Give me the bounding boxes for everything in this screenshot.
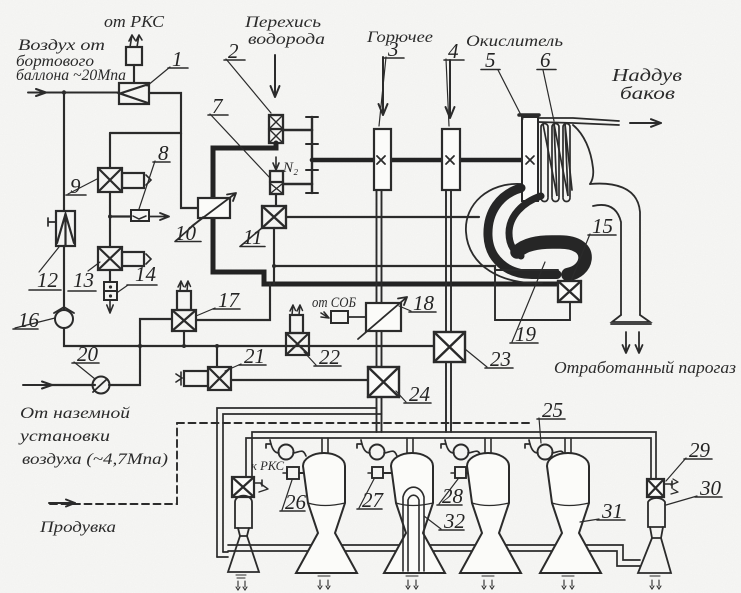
- pilot arrows above valve 1: [129, 35, 142, 47]
- valve 13 (solenoid with cylinder): [98, 247, 151, 270]
- svg-text:баков: баков: [620, 83, 675, 103]
- exhaust arrows: [623, 332, 630, 353]
- svg-text:5: 5: [485, 48, 496, 72]
- tank pressurization arrow: [630, 119, 661, 127]
- svg-text:13: 13: [73, 268, 94, 292]
- check yoke E2: [357, 440, 397, 460]
- svg-text:Отработанный парогаз: Отработанный парогаз: [554, 358, 736, 377]
- wire down from junction to regulator 12: [63, 93, 65, 212]
- vernier right engine 30: [638, 498, 671, 573]
- node junction at x64: [62, 90, 66, 94]
- tick arrow left of regulator 12: [48, 218, 56, 226]
- svg-text:Горючее: Горючее: [366, 29, 433, 46]
- check yoke E4 (valve 25): [525, 440, 565, 460]
- big engine 4: [540, 453, 601, 573]
- wire to restrictor 8: [110, 215, 131, 217]
- valve 2 (two-cell): [269, 115, 283, 143]
- wire valve17 right up to thick pipe: [196, 284, 270, 320]
- inlet arrow oxidizer: [446, 60, 455, 118]
- oxid pipe down from valve 4: [446, 190, 451, 332]
- wire valve11 down: [273, 228, 275, 284]
- fuel pipe 18 to 24: [377, 331, 382, 367]
- SOB sensor line: [321, 311, 366, 323]
- valve 29 (X box with pilot): [647, 479, 678, 497]
- wire valve2 right to column: [283, 129, 312, 132]
- ground texts: [17, 405, 168, 468]
- pilot box of reducer 1: [126, 47, 142, 65]
- svg-text:баллона ~20Мпа: баллона ~20Мпа: [16, 67, 126, 84]
- inner chamber 32: [403, 487, 424, 571]
- valve 21 (with cylinder left): [176, 367, 231, 390]
- svg-text:14: 14: [135, 262, 157, 286]
- solenoid 27: [368, 467, 391, 478]
- wire inlet to check 20: [52, 384, 95, 386]
- wire reducer1 right, down to y133: [110, 93, 181, 133]
- check valve 20: [93, 377, 110, 394]
- valve 4: [442, 129, 460, 190]
- valve 9 (solenoid with cylinder): [98, 168, 151, 192]
- wire valve21 to valve24: [231, 379, 368, 381]
- text "Наддув баков": [611, 65, 682, 103]
- wire valve11 right to turbine: [286, 216, 479, 218]
- turbine housing outline: [466, 125, 593, 283]
- valve 14 (small two-cell): [104, 282, 117, 300]
- big engine 1: [296, 453, 357, 573]
- valve 11 (X box): [262, 206, 286, 228]
- svg-text:воздуха (~4,7Мпа): воздуха (~4,7Мпа): [22, 451, 168, 468]
- HX valve 5 (left box): [519, 115, 539, 201]
- dome feed pipes from manifold: [322, 438, 571, 455]
- wire valve13 to valve 14: [109, 270, 111, 282]
- node: [272, 264, 276, 268]
- valve 24 (X box): [368, 367, 399, 397]
- drain bus bottom: [228, 545, 640, 566]
- vernier left drain marks: [236, 575, 247, 590]
- node bus x140: [138, 344, 142, 348]
- reducer 1 (box with triangle): [119, 83, 149, 104]
- HX coil 6: [541, 124, 572, 202]
- svg-text:12: 12: [37, 268, 59, 292]
- valve 3: [374, 129, 391, 190]
- inlet arrow peroxide: [271, 55, 280, 97]
- wire valve7 to valve11: [275, 194, 277, 206]
- solenoid 26: [283, 467, 305, 479]
- big engine 3: [460, 453, 521, 573]
- text "Перекись водорода": [244, 14, 325, 48]
- svg-text:Перехись: Перехись: [244, 14, 321, 31]
- engine manifold bus: [246, 432, 656, 479]
- valve 17 (solenoid): [172, 281, 196, 331]
- fuel pipe down from valve 3: [377, 190, 382, 303]
- svg-text:6: 6: [540, 48, 551, 72]
- svg-text:Продувка: Продувка: [39, 519, 116, 536]
- wire valve9 to valve13: [109, 192, 111, 247]
- purge arrow: [49, 500, 75, 507]
- svg-text:водорода: водорода: [248, 31, 325, 48]
- valve 15 (X box): [558, 281, 581, 302]
- check valve 16: [54, 307, 74, 328]
- label leaders: [15, 57, 697, 529]
- solenoid 28: [451, 467, 474, 478]
- wire reg12 to check16: [63, 246, 65, 310]
- wire check16 down to bus: [64, 328, 434, 346]
- vent arrow right of restrictor 8: [149, 213, 169, 220]
- wire y266 to gas generator: [274, 266, 495, 270]
- fuel pipe 24 down to engine frame: [377, 397, 382, 432]
- wire check20 to bus: [109, 346, 140, 385]
- svg-text:Наддув: Наддув: [611, 65, 682, 85]
- N2 arrow above valve 7: [273, 157, 279, 170]
- check yoke E3: [441, 440, 481, 460]
- oxid pipe 23 down to manifold: [446, 362, 451, 432]
- valve 22 (solenoid on bus): [286, 305, 309, 355]
- purge dashed line: [50, 423, 530, 504]
- pipe column with unions: [306, 117, 318, 193]
- thick manifold to valves 3,4,HX: [312, 158, 522, 163]
- svg-text:N₂: N₂: [282, 160, 298, 176]
- big engine 2 with inner 32: [384, 453, 445, 573]
- svg-text:От наземной: От наземной: [20, 405, 130, 422]
- gas generator box 19: [495, 270, 570, 320]
- node at y216: [108, 215, 112, 219]
- inlet arrow air line: [28, 89, 119, 96]
- vent arrow under valve 14: [107, 300, 113, 313]
- check yoke E1: [266, 440, 306, 460]
- svg-text:к РКС: к РКС: [251, 458, 284, 473]
- thick pipe valve2 down-left-down (peroxide main): [213, 143, 558, 284]
- wire from y133 down to valve 9: [109, 133, 111, 168]
- turbine gas duct 19 (thick spiral pipe): [488, 188, 585, 281]
- label underlines: [13, 58, 722, 530]
- vernier left valve 26area (X valve): [232, 477, 268, 497]
- regulator 18 (box with diagonal arrow): [358, 297, 407, 339]
- exhaust elbow and pipe: [590, 184, 651, 324]
- valve 23 (X box): [434, 332, 465, 362]
- svg-text:от РКС: от РКС: [104, 12, 165, 31]
- wire x181 down to regulator 10: [181, 133, 198, 208]
- ground air inlet arrow: [23, 382, 52, 389]
- left frame pipe (from valve24 line down left side): [217, 408, 382, 557]
- svg-text:от СОБ: от СОБ: [312, 295, 356, 311]
- valve 7 (two-cell): [270, 171, 283, 194]
- pipe to tank pressurization: [538, 118, 619, 125]
- regulator 12 (box with triangle): [56, 211, 75, 246]
- svg-text:11: 11: [243, 225, 262, 249]
- vernier left engine body: [228, 496, 259, 572]
- text "Воздух от бортового баллона ~20МПа": [16, 37, 126, 84]
- wire valve7 right to column: [283, 183, 312, 186]
- svg-text:Воздух от: Воздух от: [18, 37, 105, 54]
- wire valve17 bottom to bus: [183, 331, 185, 346]
- restrictor 8: [131, 210, 149, 221]
- wire valve21 top to bus: [216, 346, 218, 367]
- wire pilot to reducer 1: [133, 65, 135, 83]
- regulator 10 (box with diagonal arrow): [192, 193, 236, 226]
- wire x140 up to valve17 line: [140, 319, 172, 346]
- svg-text:установки: установки: [17, 428, 110, 445]
- inlet arrow fuel: [379, 57, 388, 115]
